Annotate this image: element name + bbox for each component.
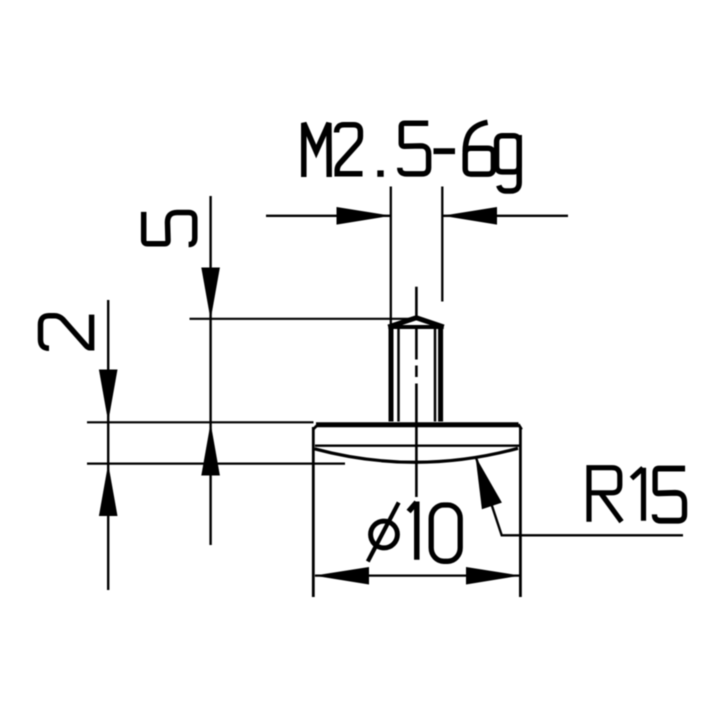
diameter right arrowhead [466, 567, 521, 585]
diameter left arrowhead [314, 567, 369, 585]
dimension 5 down arrowhead [201, 268, 220, 320]
extension line right of thread [441, 187, 443, 302]
diameter symbol [368, 503, 399, 562]
right arrowhead [442, 207, 497, 225]
extension line disc top [87, 421, 314, 423]
digit 0 of 10 [431, 505, 460, 561]
stud chamfer [388, 318, 443, 327]
thread root line left [397, 328, 400, 422]
digit 5 rotated [144, 212, 195, 245]
spherical face arc R15 [315, 448, 519, 462]
disc right bevel [518, 424, 521, 429]
disc right edge and extension [519, 427, 522, 597]
thread dimension line left segment [266, 215, 391, 217]
extension line disc bottom [87, 463, 345, 465]
left arrowhead [337, 207, 392, 225]
stud right edge [438, 325, 443, 422]
dimension 2 up arrowhead [99, 464, 118, 516]
diameter dimension line [315, 574, 519, 576]
dimension text M2.5-6g [304, 122, 519, 191]
digit 1 of 10 [409, 502, 417, 560]
disc left bevel [313, 424, 318, 429]
thread dimension line right segment [442, 215, 568, 217]
dimension 2 vertical line [107, 300, 109, 590]
dimension 5 vertical line [209, 196, 211, 545]
radius leader line [476, 458, 683, 536]
radius leader arrowhead [476, 457, 502, 510]
extension line top of stud [190, 318, 410, 320]
centerline [415, 287, 418, 497]
dimension 2 down arrowhead [99, 370, 118, 422]
disc inner line [315, 445, 519, 447]
dimension 5 up arrowhead [201, 423, 220, 476]
radius text R15 [589, 468, 644, 522]
digit 2 rotated [41, 315, 92, 349]
decimal point of M2.5 [377, 170, 383, 176]
disc left edge and extension [312, 427, 315, 597]
extension line left of thread [390, 187, 392, 326]
disc top edge [316, 422, 519, 427]
thread root line right [434, 328, 437, 422]
stud left edge [389, 325, 394, 422]
